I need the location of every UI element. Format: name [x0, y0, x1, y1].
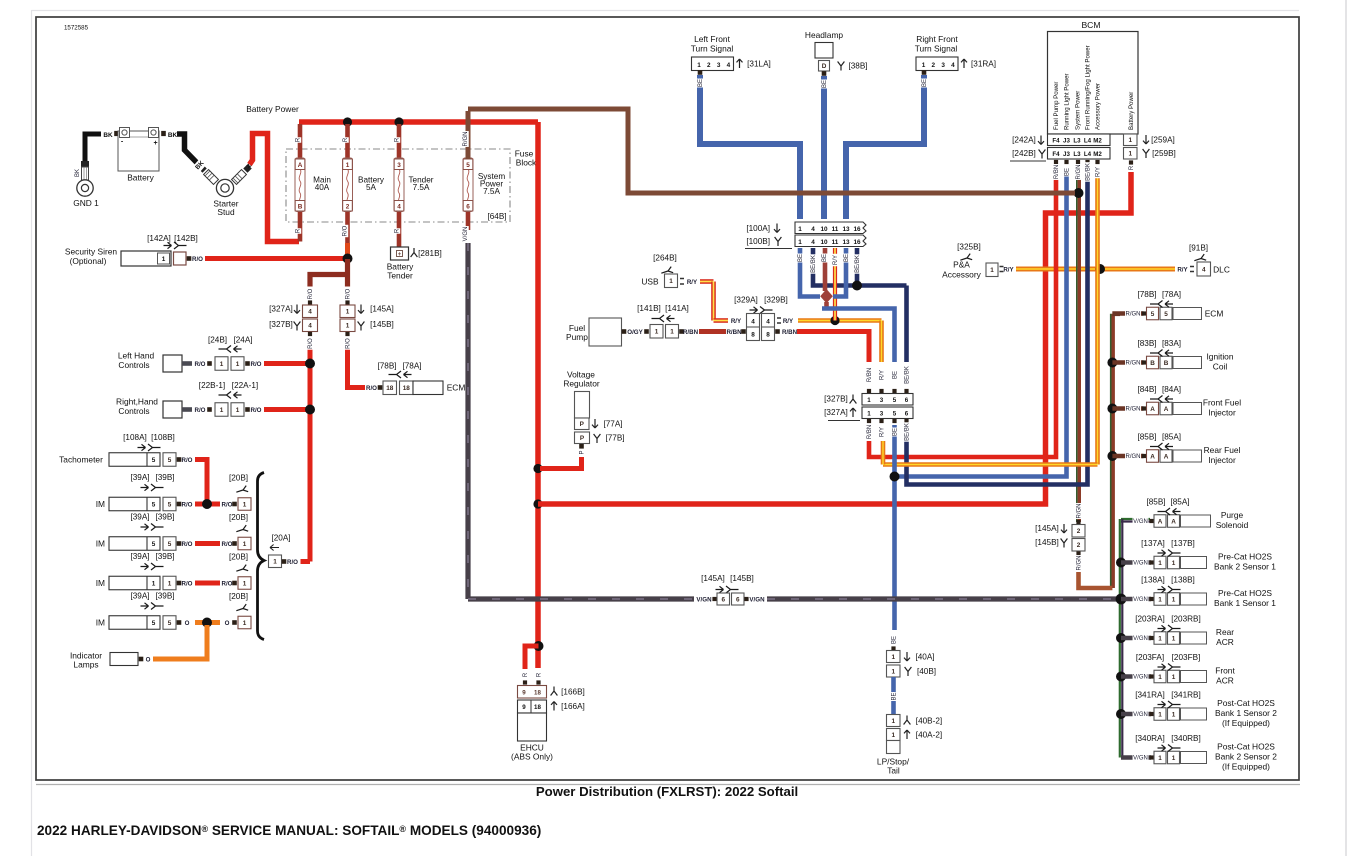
svg-text:11: 11 — [832, 226, 839, 233]
label down [77A] — [592, 419, 598, 428]
svg-text:R/Y: R/Y — [1177, 267, 1188, 274]
wire BE/BK 100B pin16 — [855, 248, 860, 286]
label up [31RA] — [961, 59, 967, 68]
svg-text:1: 1 — [1128, 151, 1132, 158]
svg-text:[39B]: [39B] — [155, 592, 174, 601]
label R/GN below 145B — [1075, 555, 1083, 571]
svg-text:1: 1 — [867, 410, 871, 417]
svg-text:[40B]: [40B] — [917, 667, 936, 676]
svg-text:Coil: Coil — [1213, 361, 1228, 371]
svg-text:V/GN: V/GN — [1133, 597, 1148, 603]
svg-text:R/O: R/O — [221, 581, 232, 588]
svg-text:Tachometer: Tachometer — [59, 455, 103, 465]
svg-text:R/BN: R/BN — [683, 329, 699, 336]
overlay label R/BN above 327B — [865, 367, 873, 383]
svg-text:1: 1 — [346, 323, 350, 330]
svg-text:[20B]: [20B] — [229, 474, 248, 483]
svg-text:Left Front: Left Front — [694, 34, 731, 44]
pin 145B-6 right — [744, 597, 748, 601]
svg-text:[166B]: [166B] — [561, 688, 585, 697]
R/GN bus corner to ECM — [1112, 311, 1120, 316]
label BE pin1 — [796, 254, 804, 263]
right front turn signal connector — [916, 57, 958, 71]
svg-text:16: 16 — [853, 239, 861, 246]
wire V/GN system fuse down — [465, 243, 470, 599]
svg-text:Regulator: Regulator — [563, 379, 600, 389]
connector 145A pin1 — [340, 305, 355, 318]
label BE above 40A — [890, 636, 898, 645]
label R/GN below 242B — [1074, 164, 1082, 180]
svg-text:BK: BK — [75, 169, 81, 177]
svg-text:O: O — [225, 620, 230, 627]
svg-text:1: 1 — [1172, 674, 1176, 681]
labels below 327A — [865, 424, 873, 440]
svg-text:1: 1 — [1172, 560, 1176, 567]
svg-text:[64B]: [64B] — [487, 212, 506, 221]
svg-text:[145B]: [145B] — [730, 574, 754, 583]
wire R/Y usb to 329A — [700, 279, 714, 284]
svg-text:R/Y: R/Y — [1003, 267, 1014, 274]
wire R/Y BCM M2 — [1095, 176, 1100, 465]
svg-text:1: 1 — [168, 580, 172, 587]
svg-text:R: R — [1129, 165, 1135, 170]
junction RHC rail — [305, 405, 315, 415]
fuse block dashed border — [286, 149, 510, 222]
arrows 22 — [234, 392, 242, 398]
pins 327B top — [867, 389, 871, 393]
voltage regulator box — [575, 392, 590, 419]
label down [40A] — [904, 652, 910, 661]
svg-text:R/BN: R/BN — [867, 368, 873, 382]
pin 329B pin4 right — [777, 318, 781, 323]
svg-text:5: 5 — [466, 162, 470, 169]
svg-text:4: 4 — [951, 62, 955, 69]
svg-text:[24A]: [24A] — [233, 336, 252, 345]
svg-text:[22A-1]: [22A-1] — [232, 381, 258, 390]
svg-text:R/GN: R/GN — [1076, 165, 1082, 180]
connector 145A pin2 — [1072, 525, 1085, 538]
svg-text:V/GN: V/GN — [1133, 561, 1148, 567]
svg-text:[341RB]: [341RB] — [1171, 691, 1201, 700]
svg-text:9: 9 — [522, 689, 526, 696]
connector 100B — [795, 235, 866, 247]
pin 325B right — [1000, 267, 1004, 272]
underline 242B label — [1010, 160, 1046, 162]
wire BE 100B pin1 — [800, 248, 820, 297]
svg-text:[340RB]: [340RB] — [1171, 734, 1201, 743]
label R above tender fuse — [393, 137, 401, 142]
svg-text:[20A]: [20A] — [271, 534, 290, 543]
fuse Main 40A — [298, 124, 303, 159]
label fork [145B] — [358, 322, 365, 331]
svg-text:[78A]: [78A] — [1162, 290, 1181, 299]
V/GN sensor bus — [1119, 519, 1121, 758]
wire R/Y 100B pin11 — [833, 248, 837, 321]
svg-text:J3: J3 — [1063, 151, 1070, 158]
fuse System Power 7.5A — [466, 200, 471, 230]
junction 203R — [1116, 633, 1126, 643]
svg-text:1: 1 — [1172, 596, 1176, 603]
svg-text:[137A]: [137A] — [1141, 539, 1165, 548]
svg-text:A: A — [1150, 406, 1155, 413]
R/GN bus vertical — [1110, 314, 1112, 588]
connector 91B pin4 — [1197, 262, 1211, 276]
overlay label BE RFT — [920, 79, 928, 88]
wire BE/BK BCM L4 — [907, 176, 1088, 485]
svg-text:1: 1 — [1172, 711, 1176, 718]
wire R/O LHC to rail — [264, 361, 310, 366]
svg-text:BE: BE — [892, 692, 898, 700]
svg-text:[138B]: [138B] — [1171, 576, 1195, 585]
svg-text:[20B]: [20B] — [229, 513, 248, 522]
svg-text:6: 6 — [466, 203, 470, 210]
svg-text:Solenoid: Solenoid — [1216, 520, 1249, 530]
svg-text:[39A]: [39A] — [130, 513, 149, 522]
svg-text:R/BN: R/BN — [1054, 165, 1060, 179]
ground terminal GND 1 — [82, 162, 89, 168]
svg-text:D: D — [822, 63, 827, 70]
svg-text:L4: L4 — [1084, 151, 1092, 158]
svg-text:R/O: R/O — [181, 502, 192, 509]
svg-text:Injector: Injector — [1208, 407, 1236, 417]
indicator lamps connector — [110, 653, 138, 666]
svg-text:R/O: R/O — [181, 581, 192, 588]
svg-text:(If Equipped): (If Equipped) — [1222, 718, 1270, 728]
arrows 329 — [750, 307, 758, 313]
svg-text:[39B]: [39B] — [155, 552, 174, 561]
connector 325B — [986, 263, 998, 277]
svg-text:V/GN: V/GN — [696, 597, 712, 604]
overlay label R/Y above 327B — [878, 369, 886, 381]
svg-text:M2: M2 — [1093, 151, 1102, 158]
pin 329B pin8 right — [775, 329, 780, 334]
connector 145B pin1 — [340, 319, 355, 332]
wire R/Y P&A to DLC — [1016, 267, 1175, 272]
svg-text:R/O: R/O — [194, 361, 205, 368]
pin 242B R/Y — [1095, 160, 1099, 164]
starter stud terminal BK — [204, 170, 219, 185]
svg-text:Right Front: Right Front — [916, 34, 958, 44]
connector 78A pin18 — [400, 381, 414, 395]
svg-text:Tail: Tail — [887, 766, 900, 776]
svg-text:Post-Cat HO2S: Post-Cat HO2S — [1217, 742, 1275, 752]
junction siren R/O — [343, 254, 353, 264]
svg-text:[38B]: [38B] — [848, 62, 867, 71]
fork 20B row 4 — [235, 604, 248, 614]
svg-text:[145A]: [145A] — [370, 305, 394, 314]
wire BE headlamp — [821, 76, 827, 219]
main power spine — [535, 122, 541, 668]
svg-text:USB: USB — [641, 277, 659, 287]
connector 259B — [1124, 148, 1138, 160]
connector 142B — [174, 252, 187, 265]
svg-text:BE: BE — [922, 79, 928, 87]
wire R/O battery fuse tail — [345, 243, 350, 255]
svg-text:R: R — [296, 228, 302, 233]
label R/O stub 327A — [306, 288, 314, 300]
wire BK battery to starter stud — [177, 134, 202, 168]
svg-text:[77A]: [77A] — [603, 420, 622, 429]
junction IM4 orange — [202, 618, 212, 628]
svg-text:R/O: R/O — [366, 385, 377, 392]
maroon tee below junction — [345, 259, 350, 287]
overlay label R/Y below 242B — [1094, 166, 1102, 178]
wire V/GN bus left segment — [468, 596, 694, 601]
fuse Battery 5A — [345, 124, 350, 159]
svg-text:A: A — [298, 162, 303, 169]
junction R/Y BCM M2 — [1095, 264, 1105, 274]
svg-text:Controls: Controls — [118, 406, 149, 416]
svg-text:Pre-Cat HO2S: Pre-Cat HO2S — [1218, 552, 1272, 562]
svg-text:BK: BK — [168, 132, 178, 139]
label BE/BK pin4 — [809, 254, 817, 273]
connector 259A — [1124, 134, 1138, 146]
svg-text:[84A]: [84A] — [1162, 385, 1181, 394]
svg-text:V/GN: V/GN — [463, 227, 469, 242]
wire R/O siren to junction — [205, 256, 344, 261]
svg-text:[145B]: [145B] — [370, 320, 394, 329]
svg-text:[329B]: [329B] — [764, 296, 788, 305]
junction rear injector — [1107, 451, 1117, 461]
svg-text:P: P — [580, 421, 585, 428]
svg-text:18: 18 — [403, 385, 411, 392]
pin 242B R/BN — [1054, 160, 1058, 164]
svg-text:O: O — [185, 620, 190, 627]
svg-text:R/O: R/O — [250, 361, 261, 368]
svg-text:1: 1 — [1158, 635, 1162, 642]
svg-text:[39A]: [39A] — [130, 473, 149, 482]
svg-text:B: B — [298, 203, 303, 210]
underline 327 labels — [828, 420, 860, 422]
svg-text:1: 1 — [346, 309, 350, 316]
svg-text:BE/BK: BE/BK — [1086, 163, 1092, 181]
svg-text:R/GN: R/GN — [1126, 312, 1141, 318]
svg-text:R: R — [395, 228, 401, 233]
svg-text:Accessory: Accessory — [942, 270, 981, 280]
svg-text:13: 13 — [842, 239, 850, 246]
svg-text:L3: L3 — [1073, 151, 1081, 158]
wire R/O 20A to rail — [301, 559, 311, 564]
connector 264B — [665, 274, 678, 288]
svg-text:R/O: R/O — [181, 457, 192, 464]
svg-text:1: 1 — [243, 501, 247, 508]
label up [40A-2] — [904, 730, 910, 739]
fork 91B — [1193, 254, 1206, 264]
starter stud ring — [216, 179, 233, 196]
wire BE 40B to 40B-2 — [891, 677, 896, 714]
svg-text:Injector: Injector — [1208, 455, 1236, 465]
svg-text:[145A]: [145A] — [701, 574, 725, 583]
svg-text:R/O: R/O — [308, 338, 314, 349]
svg-text:R/Y: R/Y — [731, 318, 742, 325]
starter stud terminal R — [232, 170, 247, 185]
svg-text:[91B]: [91B] — [1189, 244, 1208, 253]
svg-text:6: 6 — [721, 596, 725, 603]
svg-text:[24B]: [24B] — [208, 336, 227, 345]
pin 141A right — [679, 329, 684, 334]
svg-text:[341RA]: [341RA] — [1135, 691, 1165, 700]
label up [31LA] — [737, 59, 743, 68]
pin 242B BE/BK — [1085, 160, 1089, 164]
connector 327B pin4 — [303, 319, 318, 332]
connector 242A — [1048, 134, 1111, 146]
label fork [40B] — [905, 667, 912, 676]
svg-text:Running Light Power: Running Light Power — [1064, 73, 1071, 130]
arrows 108 — [138, 444, 146, 450]
svg-text:R/O: R/O — [346, 288, 352, 299]
svg-text:A: A — [1171, 518, 1176, 525]
svg-text:R/O: R/O — [221, 502, 232, 509]
svg-text:Bank 1 Sensor 2: Bank 1 Sensor 2 — [1215, 708, 1277, 718]
svg-text:4: 4 — [1202, 266, 1206, 273]
arrows 141 — [667, 315, 675, 321]
svg-text:R/O: R/O — [194, 407, 205, 414]
svg-text:[39A]: [39A] — [130, 592, 149, 601]
connector 327A — [862, 407, 913, 419]
svg-text:[83A]: [83A] — [1162, 339, 1181, 348]
svg-text:R/GN: R/GN — [463, 132, 469, 147]
BCM box — [1048, 32, 1139, 135]
svg-text:+: + — [153, 140, 157, 147]
label R/GN above 145A — [1075, 503, 1083, 519]
wire BE bus to 327B pin5 — [824, 302, 829, 309]
svg-text:(If Equipped): (If Equipped) — [1222, 762, 1270, 772]
svg-text:1572585: 1572585 — [64, 25, 89, 32]
svg-text:5: 5 — [168, 457, 172, 464]
svg-text:R/Y: R/Y — [880, 370, 886, 380]
overlay label R/BN below 242B — [1052, 164, 1060, 180]
label R above battery fuse — [341, 137, 349, 142]
arrow 20A — [270, 545, 279, 551]
svg-text:O/GY: O/GY — [627, 329, 643, 336]
pin 145B bottom — [345, 332, 349, 336]
overlay label R/O below 145B — [344, 337, 352, 349]
wire R/BN 329B to 327B pin1 — [797, 332, 869, 363]
post-cat bank1 sensor2 row — [1121, 712, 1151, 717]
pin headlamp — [822, 71, 827, 76]
svg-text:F4: F4 — [1052, 151, 1060, 158]
svg-text:1: 1 — [1172, 755, 1176, 762]
junction EHCU branch — [534, 641, 544, 651]
svg-text:[145A]: [145A] — [1035, 524, 1059, 533]
label R 259B — [1127, 165, 1135, 170]
svg-text:6: 6 — [905, 410, 909, 417]
arrows 39 row 4 — [141, 603, 149, 609]
svg-text:[77B]: [77B] — [605, 434, 624, 443]
fork 20B row 3 — [235, 565, 248, 575]
wire R/Y vertical to 327B pin3 — [879, 321, 884, 363]
svg-text:R/GN: R/GN — [1126, 454, 1141, 460]
connector 141A — [666, 325, 679, 339]
pin EHCU 18 — [536, 680, 540, 684]
rear fuel injector row — [1112, 454, 1143, 459]
label R EHCU left — [521, 672, 529, 677]
svg-text:[264B]: [264B] — [653, 254, 677, 263]
pin 259B — [1129, 160, 1133, 164]
svg-text:[327B]: [327B] — [824, 395, 848, 404]
wire BE 327A pin5 down — [892, 425, 897, 630]
label R below tender fuse — [393, 228, 401, 233]
wire BK gnd1 to battery — [85, 134, 101, 166]
wire R EHCU left branch — [525, 646, 539, 669]
svg-text:18: 18 — [534, 704, 541, 711]
svg-text:1: 1 — [922, 62, 926, 69]
svg-text:1: 1 — [236, 407, 240, 414]
pin ECM left — [378, 385, 383, 390]
svg-text:[166A]: [166A] — [561, 702, 585, 711]
wire R/O 145B to ECM — [348, 349, 366, 388]
svg-text:5: 5 — [1164, 311, 1168, 318]
svg-text:1: 1 — [1158, 560, 1162, 567]
svg-text:1: 1 — [1158, 755, 1162, 762]
svg-text:11: 11 — [832, 239, 839, 246]
pin 145A-2 top — [1076, 520, 1080, 524]
svg-text:2: 2 — [1077, 542, 1081, 549]
pin 242B BE — [1064, 160, 1068, 164]
pin 327B bottom — [308, 332, 312, 336]
svg-text:[203FA]: [203FA] — [1136, 653, 1164, 662]
overlay label BE/BK below 242B — [1084, 162, 1092, 181]
svg-text:BE: BE — [844, 254, 850, 262]
overlay label R/O below 327B — [306, 337, 314, 349]
svg-text:[40A-2]: [40A-2] — [916, 731, 942, 740]
svg-text:10: 10 — [820, 226, 828, 233]
arrows 24 — [234, 346, 242, 352]
label BE between 40B — [890, 692, 898, 701]
svg-text:[20B]: [20B] — [229, 592, 248, 601]
svg-text:[40B-2]: [40B-2] — [916, 717, 942, 726]
svg-text:BE: BE — [822, 254, 828, 262]
label R EHCU right — [535, 672, 543, 677]
svg-text:M2: M2 — [1093, 137, 1102, 144]
wire R/GN BCM L3 to 145A — [1076, 177, 1078, 522]
label down [145A] — [358, 305, 364, 314]
junction battery bus / battery fuse — [343, 117, 352, 126]
connector 327B — [862, 394, 913, 406]
svg-text:[142B]: [142B] — [174, 234, 198, 243]
svg-text:[141B]: [141B] — [637, 304, 661, 313]
pin DLC left — [1190, 267, 1194, 272]
svg-text:R/GN: R/GN — [1077, 504, 1083, 519]
svg-text:[85A]: [85A] — [1162, 433, 1181, 442]
svg-text:[325B]: [325B] — [957, 243, 981, 252]
arrows 39 row 1 — [141, 484, 149, 490]
svg-text:1: 1 — [891, 718, 895, 725]
svg-text:V/GN: V/GN — [1133, 519, 1148, 525]
svg-text:[242A]: [242A] — [1012, 136, 1036, 145]
label fork [166B] — [551, 687, 558, 696]
svg-text:[39B]: [39B] — [155, 513, 174, 522]
svg-text:5: 5 — [168, 620, 172, 627]
svg-text:4: 4 — [308, 309, 312, 316]
svg-text:[40A]: [40A] — [915, 653, 934, 662]
svg-text:8: 8 — [766, 332, 770, 339]
svg-text:IM: IM — [96, 578, 105, 588]
pin fuel pump — [622, 329, 627, 334]
svg-text:BE: BE — [893, 371, 899, 379]
connector 40A — [887, 651, 901, 663]
splice diamond BE — [820, 289, 833, 303]
label R below main fuse — [294, 228, 302, 233]
pin battery positive — [161, 131, 166, 136]
svg-text:6: 6 — [736, 596, 740, 603]
svg-text:P: P — [580, 435, 585, 442]
svg-text:R/Y: R/Y — [783, 318, 794, 325]
svg-text:R/O: R/O — [192, 256, 203, 263]
pin 20A — [282, 559, 287, 564]
connector 329A — [747, 314, 760, 341]
svg-text:[85A]: [85A] — [1170, 498, 1189, 507]
